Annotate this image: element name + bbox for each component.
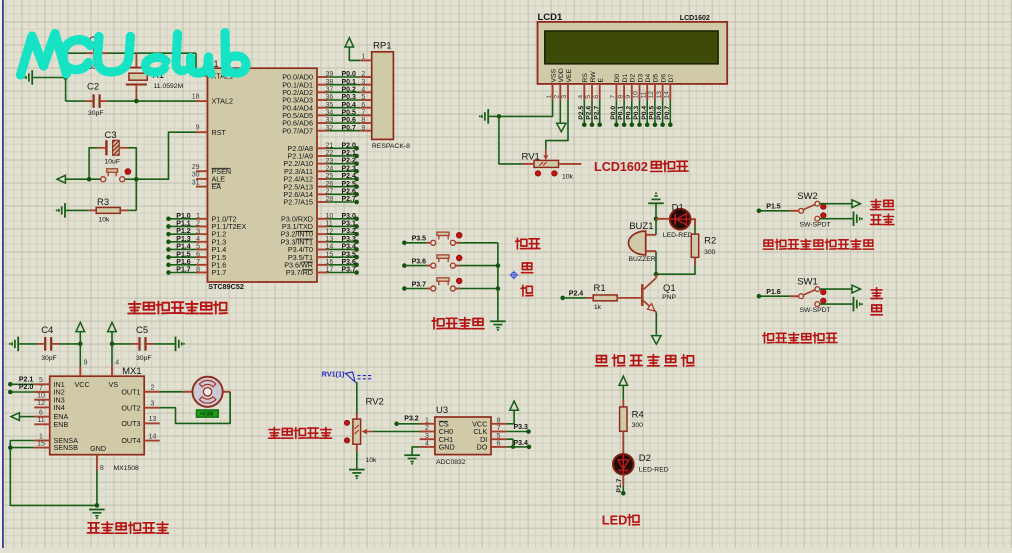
svg-text:21: 21 <box>326 143 334 150</box>
svg-text:P0.6: P0.6 <box>342 117 357 124</box>
svg-text:17: 17 <box>326 267 334 274</box>
svg-text:8: 8 <box>100 465 104 472</box>
net P0.0 wire, pin 39, RP1 pin 2 <box>317 71 372 78</box>
pin BUZ1 bottom stub <box>646 250 656 252</box>
resistor pack RP1 body <box>372 52 394 140</box>
pin U3 CH1 stub pin 3 <box>420 433 435 440</box>
label R1 reference <box>594 283 606 294</box>
svg-text:R4: R4 <box>632 409 644 420</box>
net P0.1 wire under LCD pin 8 with dot <box>618 100 627 127</box>
capacitor C2 <box>86 94 108 108</box>
net P3.7 button row: dot, label, wire <box>402 281 431 291</box>
svg-text:SW-SPDT: SW-SPDT <box>800 307 831 314</box>
svg-text:P1.7: P1.7 <box>616 478 623 492</box>
net P2.0 dot, wire, label to IN2 <box>8 384 34 394</box>
pin U3 CLK stub pin 7 <box>491 425 506 432</box>
wire SW1 bottom throw to ground <box>820 303 853 305</box>
RV2 wiper to CH0 wire <box>362 429 429 434</box>
svg-text:P0.3: P0.3 <box>342 94 357 101</box>
pin XTAL1 stub pin 19 <box>192 69 208 76</box>
junction node XTAL1/ground <box>63 75 68 80</box>
svg-text:D2: D2 <box>639 453 651 464</box>
net P3.6 button row: dot, label, wire <box>402 258 431 268</box>
svg-text:P2.0: P2.0 <box>342 142 357 149</box>
motor M1 <box>160 377 223 407</box>
svg-text:MX1: MX1 <box>122 366 142 377</box>
wire VEE to RV1 wiper <box>546 100 568 149</box>
pin MX1 OUT2 stub pin 3 <box>144 401 160 408</box>
label R2 value 300 <box>704 249 716 256</box>
net P3.4 wire, junction dot, label, pin 14 <box>317 244 359 252</box>
svg-text:36: 36 <box>326 94 334 101</box>
svg-text:LCD1602: LCD1602 <box>594 160 648 174</box>
svg-text:33: 33 <box>326 117 334 124</box>
svg-text:OUT3: OUT3 <box>121 419 140 428</box>
svg-text:4: 4 <box>196 236 200 243</box>
svg-text:RST: RST <box>212 128 227 137</box>
label D1 LED-RED <box>663 232 693 239</box>
wire XTAL2 line via C2 <box>66 78 196 102</box>
pin U3 VCC stub pin 8 <box>491 417 506 424</box>
svg-text:VS: VS <box>109 380 119 389</box>
svg-text:P2.0: P2.0 <box>19 384 34 391</box>
svg-text:P0.3: P0.3 <box>633 106 640 120</box>
svg-text:BUZ1: BUZ1 <box>629 221 653 232</box>
svg-text:P2.7/A15: P2.7/A15 <box>283 198 313 207</box>
pin MX1 ENB stub pin 11 <box>34 417 50 424</box>
svg-text:P3.5: P3.5 <box>342 251 357 258</box>
svg-text:P3.6: P3.6 <box>412 258 427 265</box>
svg-text:34: 34 <box>326 110 334 117</box>
label SW-SPDT of SW2 <box>800 221 831 228</box>
svg-text:P3.4: P3.4 <box>342 244 357 251</box>
capacitor C5 <box>112 337 154 351</box>
net P3.5 button row: dot, label, wire <box>402 236 431 246</box>
svg-text:GND: GND <box>90 444 106 453</box>
origin marker blue crosshair <box>510 271 519 280</box>
svg-text:P2.5: P2.5 <box>342 181 357 188</box>
junction VS node <box>110 342 115 347</box>
LED D1 red <box>670 209 691 230</box>
svg-text:ADC0832: ADC0832 <box>436 459 466 466</box>
red state dot of button P3.7 <box>456 278 462 284</box>
svg-text:4: 4 <box>115 359 119 366</box>
net P3.3 wire, dot, label at CLK <box>506 424 531 434</box>
svg-text:P2.1: P2.1 <box>342 150 357 157</box>
label 减 <box>521 285 533 296</box>
pin BUZ1 top stub <box>646 234 656 236</box>
ground symbol left of oscillator <box>23 70 32 85</box>
svg-text:RV2: RV2 <box>366 397 384 408</box>
label SW2 reference <box>797 191 818 202</box>
svg-text:14: 14 <box>149 433 157 440</box>
svg-text:1k: 1k <box>594 304 602 311</box>
pin MX1 SENSA stub pin 1 <box>34 433 50 440</box>
net P0.4 wire, pin 35, RP1 pin 6 <box>317 102 372 109</box>
svg-text:P3.7: P3.7 <box>412 281 427 288</box>
potentiometer RV2 body <box>353 414 361 452</box>
svg-text:3: 3 <box>361 79 365 86</box>
label 人体热释电感应模块 <box>763 239 873 249</box>
pin MX1 GND stub pin 8 <box>97 455 104 473</box>
label 亮 <box>871 305 882 315</box>
U1 left pin names <box>212 71 247 277</box>
label 有人 <box>870 214 893 224</box>
label RP1 reference <box>373 41 391 52</box>
svg-text:6: 6 <box>361 102 365 109</box>
svg-text:26: 26 <box>326 181 334 188</box>
svg-text:C5: C5 <box>136 325 148 336</box>
svg-text:4: 4 <box>425 441 429 448</box>
svg-text:6: 6 <box>39 409 43 416</box>
net P1.6 dot, wire and label <box>757 289 790 299</box>
svg-text:C4: C4 <box>41 325 53 336</box>
svg-text:SW-SPDT: SW-SPDT <box>800 221 831 228</box>
wire RST node to RST pin <box>136 132 196 179</box>
svg-text:11: 11 <box>326 221 333 228</box>
svg-text:P1.1: P1.1 <box>176 221 191 228</box>
svg-text:RS: RS <box>582 73 589 83</box>
svg-text:R3: R3 <box>97 197 109 208</box>
svg-text:P2.1: P2.1 <box>19 376 34 383</box>
net P1.7 wire, dot, rotated label <box>616 475 625 496</box>
svg-text:30pF: 30pF <box>136 355 152 362</box>
label RV1 value 10k <box>562 173 574 180</box>
svg-text:300: 300 <box>632 422 644 429</box>
ground symbol left of R3 <box>56 203 65 218</box>
net P0.6 wire, pin 33, RP1 pin 8 <box>317 117 372 124</box>
net P0.1 wire, pin 38, RP1 pin 3 <box>317 79 372 86</box>
resistor R2 <box>691 234 698 257</box>
net P3.5 wire, junction dot, label, pin 15 <box>317 251 359 259</box>
ground symbol below RV2 <box>349 470 365 480</box>
svg-text:RW: RW <box>590 71 597 83</box>
net P1.0 wire, junction dot, label, pin 1 <box>166 213 207 221</box>
label SW-SPDT of SW1 <box>800 307 831 314</box>
svg-text:10k: 10k <box>366 457 378 464</box>
pin MX1 IN3 stub pin 10 <box>34 393 50 400</box>
svg-text:9: 9 <box>84 359 88 366</box>
svg-text:LED: LED <box>602 512 628 527</box>
svg-text:10: 10 <box>37 393 45 400</box>
svg-text:7: 7 <box>361 110 365 117</box>
wire node to BUZ1 top <box>655 219 657 235</box>
junction crystal to XTAL2 line <box>134 99 139 104</box>
svg-text:P0.1: P0.1 <box>618 106 625 120</box>
label C5 reference <box>136 325 148 336</box>
junction alarm top node <box>654 217 659 222</box>
junction SENSB <box>8 445 13 450</box>
ground symbol below U3 GND <box>404 455 420 465</box>
ground symbol right of C5 <box>154 337 185 352</box>
wire R2 bottom to collector node <box>656 257 695 274</box>
svg-text:VCC: VCC <box>75 380 90 389</box>
net P2.1 dot, wire, label to IN1 <box>8 376 34 386</box>
svg-text:VDD: VDD <box>558 68 565 82</box>
pin EA stub pin 31 <box>192 179 208 186</box>
power arrow above U3 VCC <box>510 401 519 410</box>
svg-text:5: 5 <box>361 94 365 101</box>
RV2 red indicator dots <box>344 420 349 443</box>
RV1 red indicator dots <box>535 171 557 176</box>
svg-text:4: 4 <box>361 87 365 94</box>
svg-text:D1: D1 <box>622 74 629 83</box>
svg-text:P1.5: P1.5 <box>766 203 781 210</box>
label RESPACK-8 <box>372 143 410 150</box>
net P0.0 wire under LCD pin 7 with dot <box>610 100 619 127</box>
power arrow above VS <box>108 322 117 344</box>
potentiometer RV1 body <box>534 160 559 167</box>
svg-text:24: 24 <box>326 166 334 173</box>
svg-text:P2.6: P2.6 <box>342 188 357 195</box>
net P0.7 wire, pin 32, RP1 pin 9 <box>317 125 372 132</box>
junction bus P3.6 <box>496 263 501 268</box>
label 直流电机控制 <box>87 522 168 533</box>
net P3.0 wire, junction dot, label, pin 10 <box>317 213 359 221</box>
svg-text:P0.4: P0.4 <box>342 102 357 109</box>
wire XTAL1 top line via C1 <box>66 53 196 77</box>
svg-text:P1.4: P1.4 <box>176 244 191 251</box>
svg-text:C2: C2 <box>87 81 99 92</box>
svg-text:LCD1: LCD1 <box>538 12 564 23</box>
wire VSS to ground <box>499 100 553 116</box>
svg-text:P2.4: P2.4 <box>342 173 357 180</box>
junction C3 left / button <box>87 177 92 182</box>
svg-text:LED-RED: LED-RED <box>639 466 669 473</box>
wire motor right loop to OUT2 <box>160 392 231 424</box>
label R4 reference <box>632 409 644 420</box>
svg-text:5: 5 <box>497 433 501 440</box>
svg-text:12: 12 <box>37 400 45 407</box>
wire ground to R3 <box>66 209 88 211</box>
ground symbol below MX1 <box>89 510 105 520</box>
svg-text:3: 3 <box>196 228 200 235</box>
svg-text:P0.2: P0.2 <box>342 86 357 93</box>
label 无人 <box>871 199 894 209</box>
svg-text:D6: D6 <box>660 74 667 83</box>
svg-text:10uF: 10uF <box>105 159 121 166</box>
svg-text:11.0592M: 11.0592M <box>154 83 184 90</box>
net P0.2 wire, pin 37, RP1 pin 4 <box>317 86 372 93</box>
MX1 left pin names <box>54 380 119 453</box>
wire button P3.5 to bus <box>455 242 498 244</box>
svg-text:ENB: ENB <box>54 420 69 429</box>
transistor Q1 PNP <box>642 274 656 312</box>
net P2.5 wire, junction dot, label, pin 26 <box>317 181 359 189</box>
svg-text:P2.7: P2.7 <box>593 106 600 120</box>
red state dots of SW1 <box>821 289 826 303</box>
svg-text:BUZZER: BUZZER <box>629 256 656 263</box>
pin MX1 IN1 stub pin 5 <box>34 377 50 384</box>
wire VCC to power arrow <box>506 410 514 424</box>
label C5 value 30pF <box>136 355 152 362</box>
label MX1 reference <box>122 366 142 377</box>
svg-text:27: 27 <box>326 189 334 196</box>
net P0.4 wire under LCD pin 11 with dot <box>641 100 650 127</box>
label C2 reference <box>87 81 99 92</box>
svg-text:P3.2: P3.2 <box>342 228 357 235</box>
svg-text:12: 12 <box>326 228 334 235</box>
svg-text:DO: DO <box>477 443 488 452</box>
net P0.3 wire under LCD pin 10 with dot <box>633 100 642 127</box>
wire SW2 bottom throw to ground <box>820 218 853 220</box>
svg-text:P1.6: P1.6 <box>176 259 191 266</box>
svg-text:D3: D3 <box>637 74 644 83</box>
svg-text:3: 3 <box>425 433 429 440</box>
svg-text:1: 1 <box>425 417 429 424</box>
net P3.3 wire, junction dot, label, pin 13 <box>317 236 359 244</box>
svg-text:30pF: 30pF <box>88 110 104 117</box>
svg-text:3: 3 <box>151 401 155 408</box>
svg-text:Q1: Q1 <box>663 283 676 294</box>
svg-text:6: 6 <box>497 441 501 448</box>
wire node to ground symbol <box>489 115 499 117</box>
svg-text:SW2: SW2 <box>797 191 818 202</box>
svg-text:30pF: 30pF <box>41 355 57 362</box>
svg-text:28: 28 <box>326 196 334 203</box>
svg-text:VEE: VEE <box>566 68 573 82</box>
svg-text:C3: C3 <box>105 130 117 141</box>
svg-text:300: 300 <box>704 249 716 256</box>
wire C3 right leg <box>128 148 137 179</box>
net P2.3 wire, junction dot, label, pin 24 <box>317 165 359 173</box>
net P1.6 wire, junction dot, label, pin 7 <box>166 259 207 267</box>
pin U3 CS stub pin 1 <box>420 417 435 424</box>
red state dot of reset button <box>125 169 131 175</box>
wire power to alarm node <box>655 203 657 219</box>
label U1 reference <box>207 59 219 70</box>
svg-text:R1: R1 <box>594 283 606 294</box>
svg-text:P1.2: P1.2 <box>176 228 191 235</box>
svg-text:P1.7: P1.7 <box>176 267 191 274</box>
svg-text:E: E <box>598 78 605 83</box>
op LCD1 body LCD1602 <box>538 22 728 84</box>
resistor R3 <box>88 207 128 213</box>
svg-text:OUT4: OUT4 <box>121 436 140 445</box>
svg-text:P2.4: P2.4 <box>569 290 584 297</box>
wire power to RP1 pin1 <box>349 47 360 60</box>
wire and pin VS 4 <box>112 344 119 376</box>
capacitor C4 <box>37 337 59 351</box>
net P2.4 wire, junction dot, label, pin 25 <box>317 173 359 181</box>
net P0.5 wire under LCD pin 12 with dot <box>649 100 658 127</box>
pin ALE stub pin 30 <box>192 172 208 179</box>
terminal label RV1(1) blue <box>322 370 372 382</box>
svg-text:P0.4: P0.4 <box>641 106 648 120</box>
net P1.5 wire, junction dot, label, pin 6 <box>166 251 207 259</box>
net P2.1 wire, junction dot, label, pin 22 <box>317 150 359 158</box>
svg-text:22: 22 <box>326 150 334 157</box>
label LED灯 <box>602 512 640 527</box>
label LCD1602 part name <box>680 15 710 22</box>
svg-text:D5: D5 <box>653 74 660 83</box>
svg-text:RP1: RP1 <box>373 41 391 52</box>
label SW1 reference <box>797 277 818 288</box>
label 声光报警电路 <box>596 355 694 366</box>
ground symbol right of SW1 <box>854 297 863 312</box>
svg-text:RV1(1): RV1(1) <box>322 370 345 379</box>
op U3 chip body ADC0832 <box>435 417 491 455</box>
svg-text:P1.7: P1.7 <box>212 268 227 277</box>
svg-text:39: 39 <box>326 71 334 78</box>
pin U3 GND stub pin 4 <box>420 441 435 448</box>
svg-text:7: 7 <box>196 259 200 266</box>
svg-text:GND: GND <box>439 443 455 452</box>
junction VCC node <box>78 342 83 347</box>
label C3 reference <box>105 130 117 141</box>
MCUclub watermark logo <box>21 33 247 76</box>
wire SW1 top throw to arrow <box>820 288 853 290</box>
wire VDD down <box>559 100 561 123</box>
net P2.2 wire, junction dot, label, pin 23 <box>317 158 359 166</box>
svg-text:11: 11 <box>37 417 44 424</box>
wire button P3.6 to bus <box>455 265 498 267</box>
svg-text:OUT2: OUT2 <box>121 403 140 412</box>
svg-text:8: 8 <box>196 267 200 274</box>
svg-text:1: 1 <box>196 213 200 220</box>
svg-text:15: 15 <box>326 251 334 258</box>
net P1.4 wire, junction dot, label, pin 5 <box>166 244 207 252</box>
push button at P3.5 <box>431 232 456 245</box>
svg-text:10: 10 <box>326 213 334 220</box>
svg-text:D2: D2 <box>630 74 637 83</box>
pin U3 CH0 stub pin 2 <box>420 425 435 432</box>
svg-text:8: 8 <box>361 117 365 124</box>
label R4 value 300 <box>632 422 644 429</box>
wire SW2 top throw to arrow <box>820 203 853 205</box>
junction ground node MX1 <box>95 503 100 508</box>
svg-text:10k: 10k <box>99 216 111 223</box>
pin XTAL2 stub pin 18 <box>192 94 208 102</box>
sheet left border <box>0 0 2 548</box>
net P1.5 dot, wire and label <box>757 203 790 213</box>
svg-text:2: 2 <box>196 221 200 228</box>
U1 right pin names <box>281 73 313 277</box>
svg-text:U3: U3 <box>436 405 448 416</box>
label MX1508 <box>114 465 140 472</box>
net P3.7 wire, junction dot, label, pin 17 <box>317 267 359 275</box>
svg-text:STC89C52: STC89C52 <box>208 282 244 291</box>
net P3.1 wire, junction dot, label, pin 11 <box>317 221 359 229</box>
svg-text:P2.3: P2.3 <box>342 165 357 172</box>
wire RV1 left to VSS node <box>499 116 523 163</box>
label Q1 reference <box>663 283 676 294</box>
svg-text:13: 13 <box>326 236 334 243</box>
svg-text:P0.0: P0.0 <box>610 106 617 120</box>
svg-text:VSS: VSS <box>550 68 557 82</box>
red state dot of button P3.6 <box>456 255 462 261</box>
svg-text:RV1: RV1 <box>522 151 540 162</box>
wire GND pin down <box>96 470 98 505</box>
svg-text:P0.1: P0.1 <box>342 79 357 86</box>
wire SENSA SENSB to ground bus <box>10 441 97 506</box>
LCD pin names rotated <box>550 68 675 82</box>
svg-text:13: 13 <box>149 416 157 423</box>
svg-text:P0.5: P0.5 <box>649 106 656 120</box>
pin MX1 IN4 stub pin 12 <box>34 400 50 407</box>
svg-text:29: 29 <box>192 164 200 171</box>
MX1 right pin names <box>121 387 140 445</box>
push button at P3.6 <box>431 255 456 268</box>
LCD pin stubs <box>553 84 671 100</box>
label LCD1 reference <box>538 12 564 23</box>
label 独立按键 <box>432 318 484 329</box>
svg-text:1: 1 <box>361 54 365 61</box>
LCD screen area <box>545 31 718 64</box>
svg-text:MX1508: MX1508 <box>114 465 140 472</box>
wire BUZ1 bottom to collector node <box>655 251 657 274</box>
svg-text:D1: D1 <box>672 203 684 214</box>
